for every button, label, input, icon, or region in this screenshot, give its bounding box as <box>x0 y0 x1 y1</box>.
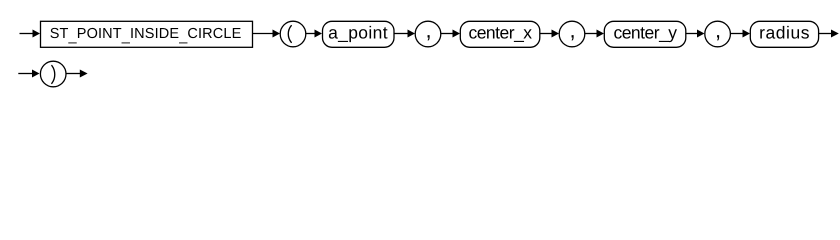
svg-text:center_y: center_y <box>613 23 677 43</box>
wire: row2 exit arrow <box>66 70 87 78</box>
wire: row1 entry line <box>20 30 41 38</box>
wire: row1 exit arrow <box>819 30 839 38</box>
svg-text:radius: radius <box>759 23 810 43</box>
wire: row2 entry line <box>18 70 39 78</box>
svg-text:center_x: center_x <box>468 23 532 43</box>
wire: to comma2 <box>540 30 559 38</box>
variable center_x <box>460 21 540 47</box>
wire: to comma3 <box>686 30 705 38</box>
keyword box ST_POINT_INSIDE_CIRCLE <box>41 21 253 47</box>
svg-text:ST_POINT_INSIDE_CIRCLE: ST_POINT_INSIDE_CIRCLE <box>50 26 242 44</box>
wire: to comma1 <box>394 30 415 38</box>
variable radius <box>750 21 818 47</box>
svg-text:,: , <box>569 18 575 43</box>
wire: to center_x <box>441 30 460 38</box>
variable center_y <box>604 21 686 47</box>
variable a_point <box>323 21 395 47</box>
wire: to radius <box>731 30 750 38</box>
terminal comma2 <box>559 18 585 47</box>
wire: to ( <box>253 30 281 38</box>
terminal ) <box>40 61 66 87</box>
svg-text:,: , <box>425 18 431 43</box>
svg-text:,: , <box>715 18 721 43</box>
terminal comma3 <box>705 18 731 47</box>
svg-text:a_point: a_point <box>328 23 388 43</box>
wire: to a_point <box>306 30 322 38</box>
terminal ( <box>280 21 306 47</box>
wire: to center_y <box>585 30 604 38</box>
terminal comma1 <box>415 18 441 47</box>
